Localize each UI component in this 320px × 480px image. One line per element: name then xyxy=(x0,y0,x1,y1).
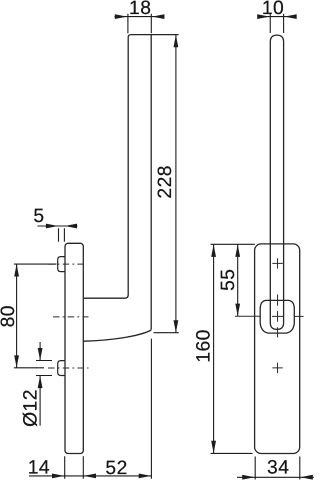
dimension 160 xyxy=(194,244,255,453)
svg-text:34: 34 xyxy=(267,457,289,478)
dimensions 14 and 52 xyxy=(28,339,152,479)
svg-text:Ø12: Ø12 xyxy=(21,389,42,427)
dimension 80 xyxy=(0,264,56,368)
centerline bottom screw xyxy=(48,367,89,369)
backplate side view xyxy=(65,243,83,453)
svg-text:10: 10 xyxy=(262,0,284,19)
svg-text:5: 5 xyxy=(33,206,44,227)
svg-text:160: 160 xyxy=(194,329,215,363)
handle neck bottom edge xyxy=(84,330,151,341)
handle grip right edge xyxy=(150,35,152,330)
handle grip left+top outline with top extension xyxy=(84,35,179,299)
svg-text:18: 18 xyxy=(129,0,151,19)
dimension 5 xyxy=(33,206,77,242)
dimension 34 xyxy=(237,457,314,480)
svg-text:14: 14 xyxy=(28,457,50,478)
handle bar front view (capsule) xyxy=(270,35,283,329)
screw head top (side) xyxy=(58,257,65,272)
dimension 10 xyxy=(257,0,296,33)
svg-text:80: 80 xyxy=(0,305,19,327)
pivot cross xyxy=(272,311,283,322)
svg-text:52: 52 xyxy=(105,458,127,479)
dimension 55 xyxy=(218,244,260,316)
pivot horizontal centerline right segment xyxy=(295,315,304,317)
pivot housing front view xyxy=(260,300,294,333)
svg-text:228: 228 xyxy=(155,165,176,199)
svg-text:55: 55 xyxy=(218,269,239,291)
centerline top screw xyxy=(48,263,86,265)
backplate front view xyxy=(255,244,300,454)
pivot vertical centerline xyxy=(277,295,279,338)
bottom screw cross xyxy=(272,363,283,373)
centerline spindle xyxy=(53,316,89,318)
dimension diameter 12 xyxy=(21,342,52,427)
top screw cross xyxy=(272,258,283,268)
screw head bottom (side) xyxy=(58,361,65,376)
dimension 228 xyxy=(154,35,179,333)
dimension 18 xyxy=(115,0,165,33)
